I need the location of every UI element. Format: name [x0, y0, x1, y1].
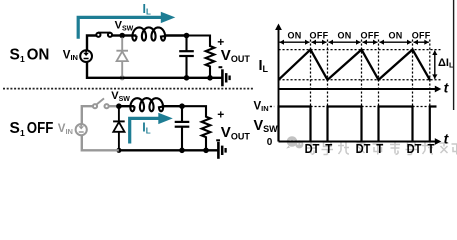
svg-text:VIN: VIN [63, 49, 78, 62]
inductor L [132, 27, 166, 40]
svg-text:T: T [325, 141, 332, 156]
svg-text:DT: DT [407, 141, 422, 156]
svg-text:ON: ON [287, 30, 301, 40]
svg-text:ON: ON [337, 30, 351, 40]
diode bottom junction dot [120, 75, 125, 80]
svg-text:IL: IL [142, 121, 150, 136]
dashed separator line [3, 88, 253, 90]
dashed envelope IL max [279, 49, 441, 51]
svg-text:VSW: VSW [111, 90, 130, 103]
source Vin circle [80, 50, 92, 62]
resistor bottom junction dot [207, 75, 213, 81]
svg-text:S: S [10, 120, 20, 137]
Vin dashed reference level [311, 106, 328, 108]
svg-text:OFF: OFF [361, 30, 380, 40]
svg-text:VIN: VIN [254, 100, 269, 113]
svg-text:t: t [444, 131, 450, 147]
svg-text:1: 1 [20, 128, 25, 138]
svg-text:OFF: OFF [412, 30, 431, 40]
svg-text:DT: DT [305, 141, 320, 156]
svg-text:OFF: OFF [27, 120, 54, 137]
watermark gray glyph strokes [306, 142, 316, 155]
svg-text:1: 1 [20, 54, 25, 64]
svg-text:T: T [428, 141, 435, 156]
IL teal current arrow (S1 ON) [78, 17, 162, 38]
inductor L [130, 98, 163, 111]
load resistor R [187, 36, 215, 78]
svg-text:OFF: OFF [310, 30, 329, 40]
diode D1 (inactive gray) [116, 38, 128, 78]
t axis bottom plot [279, 141, 438, 143]
capacitor C [175, 106, 190, 150]
source Vin circle [76, 124, 87, 135]
svg-text:t: t [444, 80, 450, 96]
Vsw square waveform [279, 107, 437, 142]
wire: bottom rail to ground [122, 77, 222, 79]
capacitor junction dots [179, 103, 185, 109]
svg-text:ON: ON [27, 46, 50, 63]
wire: left rail top (source to switch) [82, 106, 95, 124]
t axis top plot [279, 88, 438, 90]
load resistor R [182, 106, 210, 150]
wire: left rail top (source to switch) [87, 36, 98, 50]
wire: Vsw node to inductor [119, 105, 134, 107]
wire: switch to Vsw node [109, 105, 119, 107]
svg-text:IL: IL [143, 2, 151, 17]
diode D1 (conducting) [113, 108, 125, 150]
svg-text:ΔIL: ΔIL [438, 57, 454, 70]
IL triangle waveform [279, 50, 430, 80]
capacitor C [179, 36, 194, 78]
delta IL arrow [434, 51, 436, 79]
right border line [453, 0, 455, 110]
svg-text:+: + [217, 108, 224, 122]
label - polarity [216, 139, 220, 141]
ON/OFF interval arrows and labels [280, 41, 310, 43]
capacitor junction dots [184, 33, 190, 39]
watermark logo chat bubbles [286, 136, 303, 148]
svg-text:0: 0 [267, 137, 273, 148]
switch S1 closed [96, 33, 112, 37]
wire: left rail bottom [82, 136, 119, 151]
IL teal current arrow (S1 OFF) [130, 118, 161, 143]
ground symbol [218, 142, 225, 159]
label - polarity [219, 66, 223, 68]
resistor bottom junction dot [203, 148, 209, 154]
svg-text:S: S [10, 46, 20, 63]
svg-text:VIN: VIN [58, 123, 73, 136]
svg-text:VOUT: VOUT [221, 47, 251, 64]
node Vsw junction dot [119, 33, 125, 39]
svg-text:VSW: VSW [254, 118, 279, 134]
Vin label tick [270, 106, 274, 108]
wire: Vsw node to inductor [122, 34, 136, 36]
ground symbol [222, 69, 229, 86]
wire: inductor to output node [162, 105, 182, 107]
wire: left rail bottom [87, 62, 122, 78]
wire: inductor to output node [165, 34, 187, 36]
svg-text:ON: ON [388, 30, 402, 40]
svg-text:IL: IL [259, 58, 269, 74]
vertical dashed transition gridlines [310, 40, 312, 142]
svg-text:VSW: VSW [115, 19, 134, 32]
diode bottom junction dot [116, 148, 121, 153]
svg-text:DT: DT [356, 141, 371, 156]
dashed envelope IL min [279, 79, 441, 81]
wire: bottom rail to ground [119, 149, 218, 151]
svg-text:VOUT: VOUT [221, 124, 251, 141]
svg-text:T: T [376, 141, 383, 156]
IL / Vsw shared vertical axis [278, 28, 280, 142]
node Vsw junction dot [116, 103, 122, 109]
switch S1 open [93, 104, 109, 108]
wire: switch to Vsw node [112, 34, 122, 36]
